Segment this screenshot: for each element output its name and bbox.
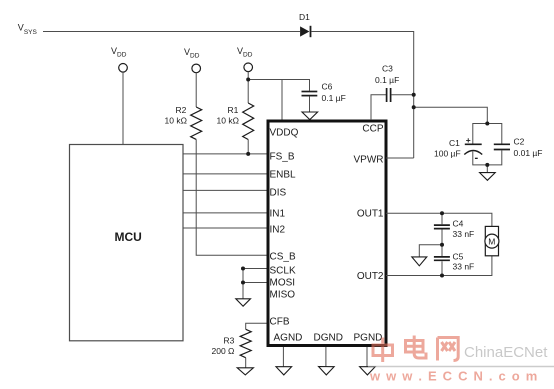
capacitor C6 xyxy=(302,82,346,104)
wire CFB to R3 xyxy=(246,323,267,329)
wire VDD2 to R2 top xyxy=(195,73,197,107)
svg-text:MCU: MCU xyxy=(115,230,142,244)
supply VDD3 xyxy=(237,46,253,72)
wire C5 to OUT2 xyxy=(441,261,443,275)
svg-text:CS_B: CS_B xyxy=(270,252,296,263)
svg-text:C2: C2 xyxy=(514,137,525,147)
svg-text:SCLK: SCLK xyxy=(270,265,296,276)
wire VPWR net to C1/C2 xyxy=(414,107,488,123)
wire C3 to VPWR net xyxy=(391,94,413,96)
wire C1/C2 to ground xyxy=(486,165,488,173)
node C3 right xyxy=(412,93,416,97)
svg-text:10 kΩ: 10 kΩ xyxy=(165,116,187,126)
capacitor C5 xyxy=(434,252,474,272)
node MOSI xyxy=(241,281,245,285)
node OUT2/C5 xyxy=(440,274,444,278)
op IC U1 box xyxy=(268,121,386,346)
wire OUT1 to C4 xyxy=(441,213,443,224)
supply VDD2 xyxy=(184,47,201,73)
wire R1 bottom to FS_B junction xyxy=(247,140,249,154)
svg-text:C5: C5 xyxy=(453,252,464,262)
node VDD3 rail xyxy=(246,78,250,82)
wire C1/C2 bottom bar xyxy=(473,150,502,165)
svg-text:DIS: DIS xyxy=(270,187,287,198)
svg-text:0.01 µF: 0.01 µF xyxy=(514,148,543,158)
node C1C2 bottom xyxy=(485,163,489,167)
svg-text:MISO: MISO xyxy=(270,290,296,301)
svg-text:10 kΩ: 10 kΩ xyxy=(217,116,239,126)
node C4/C5 mid xyxy=(440,243,444,247)
wire mid node to ground xyxy=(419,245,442,257)
ground under C6 xyxy=(302,112,318,120)
svg-text:DGND: DGND xyxy=(314,333,343,344)
node OUT1/C4 xyxy=(440,211,444,215)
node C1C2 top xyxy=(485,122,489,126)
svg-text:C6: C6 xyxy=(322,82,333,92)
ground DGND xyxy=(319,367,335,375)
svg-text:D1: D1 xyxy=(299,12,310,22)
wire R2 bottom to CS_B pin xyxy=(196,139,266,255)
svg-text:IN2: IN2 xyxy=(270,225,286,236)
MCU box xyxy=(70,145,184,341)
svg-text:33 nF: 33 nF xyxy=(453,229,475,239)
wire VPWR pin xyxy=(386,157,414,159)
capacitor C3 xyxy=(375,64,399,103)
svg-text:IN1: IN1 xyxy=(270,209,286,220)
wire VDD3 to R1 top xyxy=(247,72,249,103)
svg-text:CFB: CFB xyxy=(270,317,290,328)
svg-text:C4: C4 xyxy=(453,219,464,229)
ground PGND xyxy=(360,367,376,375)
svg-text:0.1 µF: 0.1 µF xyxy=(322,93,346,103)
svg-text:FS_B: FS_B xyxy=(270,151,295,162)
wire IN2 xyxy=(183,227,267,229)
capacitor C2 xyxy=(494,137,543,159)
wire SCLK xyxy=(243,268,267,270)
svg-text:MOSI: MOSI xyxy=(270,278,296,289)
wire C1/C2 top bar xyxy=(473,124,502,145)
capacitor C4 xyxy=(434,219,474,240)
svg-text:0.1 µF: 0.1 µF xyxy=(375,75,399,85)
svg-text:OUT2: OUT2 xyxy=(357,271,384,282)
wire diode cathode to top-right corner down to VPWR xyxy=(311,32,413,159)
wire VDD3 rail to C6 xyxy=(248,80,309,91)
ground under R3 xyxy=(237,368,253,375)
wire AGND stem xyxy=(282,347,284,367)
svg-text:CCP: CCP xyxy=(362,124,383,135)
wire OUT2 to motor xyxy=(386,256,492,276)
svg-text:R3: R3 xyxy=(224,336,235,346)
ground near C4/C5 xyxy=(412,257,427,266)
wire R3 to ground xyxy=(245,358,247,368)
svg-text:w w w . E C C N . c o m: w w w . E C C N . c o m xyxy=(369,369,538,384)
svg-text:R2: R2 xyxy=(176,105,187,115)
svg-text:AGND: AGND xyxy=(274,333,303,344)
svg-text:100 µF: 100 µF xyxy=(434,149,461,159)
wire CCP up to C3 xyxy=(371,95,386,120)
resistor R1 xyxy=(217,103,254,140)
motor M xyxy=(485,226,499,255)
wire SCLK/MOSI to ground xyxy=(242,269,244,299)
wire VSYS rail to diode anode xyxy=(43,31,300,33)
svg-text:M: M xyxy=(488,236,495,246)
node SCLK xyxy=(241,267,245,271)
svg-text:OUT1: OUT1 xyxy=(357,209,384,220)
svg-text:-: - xyxy=(475,152,479,164)
wire VDDQ drop xyxy=(281,80,283,121)
capacitor C1 xyxy=(434,135,482,164)
supply VDD1 xyxy=(111,46,127,72)
wire C6 to ground xyxy=(309,96,311,112)
ground under C1/C2 xyxy=(480,173,496,181)
svg-text:C1: C1 xyxy=(449,138,460,148)
watermark xyxy=(368,336,554,384)
resistor R2 xyxy=(165,105,202,139)
wire OUT1 to motor xyxy=(386,213,492,226)
svg-text:ChinaECNet: ChinaECNet xyxy=(464,344,548,361)
svg-text:+: + xyxy=(466,135,471,145)
wire PGND stem xyxy=(366,347,368,367)
ground AGND xyxy=(276,367,292,375)
diode D1 xyxy=(299,12,311,37)
svg-text:ENBL: ENBL xyxy=(270,170,297,181)
wire IN1 xyxy=(183,212,267,214)
svg-text:33 nF: 33 nF xyxy=(453,262,475,272)
wire C4 to C5 xyxy=(441,229,443,256)
ground under SCLK/MOSI xyxy=(236,299,251,306)
node C1C2 branch xyxy=(412,105,416,109)
wire FS_B xyxy=(183,153,267,155)
svg-text:VPWR: VPWR xyxy=(354,155,384,166)
wire VDD1 to MCU top xyxy=(122,72,124,144)
resistor R3 xyxy=(212,329,252,357)
wire ENBL xyxy=(183,173,267,175)
wire DGND stem xyxy=(325,347,327,367)
wire DIS xyxy=(183,189,267,191)
svg-text:PGND: PGND xyxy=(354,333,383,344)
node R1/FS_B xyxy=(246,152,250,156)
wire MOSI xyxy=(243,282,267,284)
svg-text:R1: R1 xyxy=(228,105,239,115)
svg-text:200 Ω: 200 Ω xyxy=(212,346,235,356)
svg-text:C3: C3 xyxy=(382,64,393,74)
svg-text:VDDQ: VDDQ xyxy=(270,128,299,139)
